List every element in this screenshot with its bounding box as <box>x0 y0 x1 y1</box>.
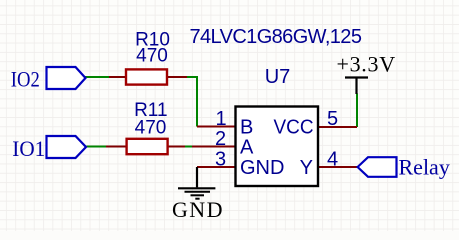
svg-text:IO2: IO2 <box>11 66 40 91</box>
svg-text:A: A <box>240 137 254 159</box>
svg-text:+3.3V: +3.3V <box>337 51 396 76</box>
svg-text:5: 5 <box>327 108 338 130</box>
svg-text:IO1: IO1 <box>12 136 45 161</box>
svg-text:GND: GND <box>240 157 284 179</box>
svg-text:1: 1 <box>215 108 226 130</box>
svg-text:4: 4 <box>327 149 338 171</box>
svg-text:74LVC1G86GW,125: 74LVC1G86GW,125 <box>190 26 362 48</box>
svg-text:Relay: Relay <box>399 154 450 179</box>
svg-text:GND: GND <box>172 197 224 222</box>
svg-text:Y: Y <box>300 157 313 179</box>
svg-text:VCC: VCC <box>274 117 314 139</box>
svg-text:2: 2 <box>215 128 226 150</box>
svg-text:3: 3 <box>215 149 226 171</box>
svg-text:470: 470 <box>135 117 167 138</box>
svg-text:B: B <box>240 117 253 139</box>
svg-text:U7: U7 <box>265 66 291 88</box>
svg-text:470: 470 <box>136 45 168 66</box>
